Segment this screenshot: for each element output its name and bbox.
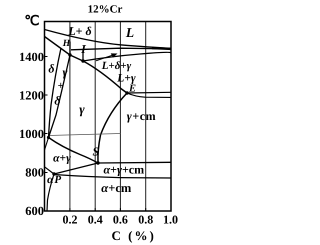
S horizontal to right <box>98 161 171 164</box>
grid line 0.8 <box>145 22 147 212</box>
liquidus L1 <box>45 30 172 49</box>
svg-text:H: H <box>62 39 71 49</box>
svg-text:δ: δ <box>54 94 60 108</box>
svg-text:α: α <box>47 174 54 186</box>
P to S line <box>54 163 98 174</box>
junction dot J2 <box>81 59 84 62</box>
svg-text:E: E <box>128 84 136 95</box>
svg-text:1.0: 1.0 <box>163 213 178 227</box>
P horizontal to right <box>54 175 171 179</box>
svg-text:S: S <box>92 145 99 159</box>
band left line H to G <box>49 48 62 138</box>
svg-text:α+γ: α+γ <box>53 153 71 165</box>
tick marks left <box>45 57 48 173</box>
delta solidus L2a (frame to H blob) <box>45 37 71 56</box>
svg-text:800: 800 <box>25 166 44 180</box>
junction dot E <box>125 91 128 94</box>
svg-text:600: 600 <box>25 204 44 218</box>
svg-text:0.8: 0.8 <box>138 213 153 227</box>
vertical V2 below I <box>82 49 84 61</box>
svg-text:L+ δ: L+ δ <box>67 24 91 38</box>
grid line 0.4 <box>94 22 96 212</box>
svg-text:δ: δ <box>48 62 54 76</box>
svg-text:1400: 1400 <box>19 50 44 64</box>
junction dot H blob <box>68 53 71 56</box>
gamma / gamma+cm boundary E to S <box>98 93 127 163</box>
wedge bottom from J2 <box>83 52 171 61</box>
eutectic horizontal upper E to right <box>127 91 171 94</box>
junction dot S <box>96 161 99 164</box>
svg-text:γ+cm: γ+cm <box>127 109 157 123</box>
svg-text:0.6: 0.6 <box>113 213 128 227</box>
alpha right boundary P down <box>47 174 54 211</box>
junction dot G <box>47 136 50 139</box>
grid line 0.6 <box>119 22 121 212</box>
svg-text:P: P <box>54 174 61 186</box>
faint horizontal near 1000 <box>49 134 121 136</box>
svg-text:0.2: 0.2 <box>63 213 78 227</box>
G to S curve <box>49 138 99 164</box>
svg-text:L+δ+γ: L+δ+γ <box>101 60 132 72</box>
frame to P line <box>45 167 55 174</box>
svg-text:1000: 1000 <box>19 127 44 141</box>
merged liquidus ink segment <box>152 47 171 50</box>
tick marks bottom <box>70 208 146 211</box>
svg-text:12%Cr: 12%Cr <box>88 3 123 15</box>
svg-text:α+γ+cm: α+γ+cm <box>103 163 144 177</box>
junction dot P <box>52 172 55 175</box>
band right line blob to G <box>49 55 71 138</box>
svg-text:α+cm: α+cm <box>101 181 132 195</box>
svg-text:C (%): C (%) <box>112 228 156 243</box>
grid line 0.2 <box>69 22 71 212</box>
eutectic lower line E wedge <box>127 93 171 97</box>
arrow annotation to wedge <box>96 53 118 60</box>
G to frame short line <box>45 138 49 151</box>
svg-text:1200: 1200 <box>19 89 44 103</box>
svg-text:γ: γ <box>79 102 85 117</box>
svg-text:℃: ℃ <box>24 13 39 28</box>
axes frame <box>45 22 172 212</box>
svg-text:0.4: 0.4 <box>88 213 103 227</box>
svg-text:γ: γ <box>63 65 68 79</box>
wedge top line through I <box>71 48 171 50</box>
vertical V1 at wedge tip <box>69 42 71 56</box>
gamma solidus blob to E <box>70 55 127 93</box>
svg-text:+: + <box>58 80 64 92</box>
svg-text:L: L <box>125 25 134 40</box>
